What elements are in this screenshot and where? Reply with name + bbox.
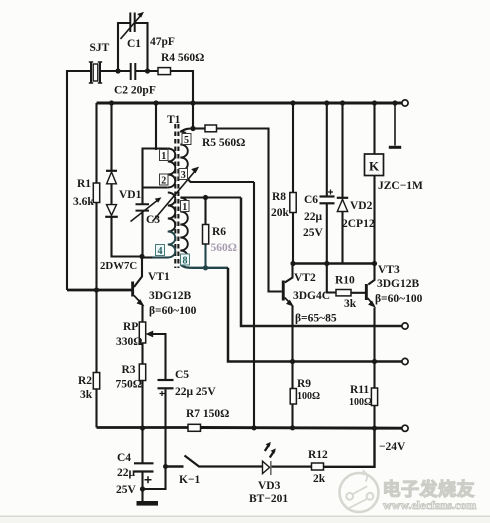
output terminal mid1 [402, 323, 408, 329]
svg-text:R11: R11 [350, 384, 369, 396]
svg-text:β=65~85: β=65~85 [295, 313, 337, 325]
wire T1 pin1 bracket [143, 149, 168, 204]
capacitor C2 [131, 63, 136, 80]
T1 pin box 5 [182, 134, 191, 146]
svg-text:3DG4C: 3DG4C [293, 290, 330, 302]
svg-text:2k: 2k [313, 473, 326, 485]
wire R5 right down to VT2 base [217, 129, 282, 292]
svg-text:www.elecfans.com: www.elecfans.com [383, 498, 476, 512]
wire K coil top [373, 103, 375, 154]
resistor R12 [312, 463, 324, 470]
svg-text:R10: R10 [335, 275, 355, 287]
wire VT3 emitter down to line2 junction [373, 308, 375, 362]
svg-text:SJT: SJT [90, 42, 110, 54]
capacitor C5 electrolytic [158, 380, 174, 396]
svg-text:100Ω: 100Ω [297, 391, 320, 402]
svg-text:β=60~100: β=60~100 [149, 305, 197, 317]
capacitor C4 electrolytic [134, 463, 154, 483]
T1 pin5 lead [180, 129, 193, 133]
svg-text:R9: R9 [297, 378, 311, 390]
wire R10 right to VT3 base [351, 292, 365, 294]
T1 pin3 lead [181, 172, 254, 183]
svg-text:100Ω: 100Ω [349, 397, 372, 408]
svg-text:22μ 25V: 22μ 25V [175, 386, 216, 398]
svg-text:R12: R12 [308, 449, 328, 461]
wire VT2 collector [285, 264, 293, 283]
svg-text:VT1: VT1 [148, 271, 170, 283]
capacitor C3 (trimmer) [136, 204, 150, 210]
capacitor C6 electrolytic [320, 190, 335, 204]
capacitor C1 (trimmer) [121, 13, 144, 40]
wire VD2 top [341, 103, 343, 198]
svg-text:560Ω: 560Ω [211, 242, 237, 254]
wire VD2 bottom [341, 212, 343, 264]
T1 right upper winding [180, 132, 188, 171]
svg-text:2DW7C: 2DW7C [100, 260, 137, 272]
wire VD1 bottom to node [112, 217, 143, 257]
T1 left upper winding [168, 149, 176, 188]
relay contact bar [389, 146, 401, 149]
svg-text:R7 150Ω: R7 150Ω [186, 408, 229, 420]
resistor R4 [158, 68, 171, 75]
wire C4 top [141, 428, 143, 463]
resistor R9 [290, 389, 296, 405]
wire node down to VT1 collector [134, 257, 142, 288]
wire T1 pin2 stub [143, 186, 168, 188]
wire VD1 top [110, 103, 112, 170]
wire R1 bottom to base line [95, 203, 97, 291]
svg-text:C1: C1 [127, 38, 141, 50]
wire R9 bottom to rail [291, 404, 293, 428]
svg-text:C3: C3 [146, 214, 160, 226]
svg-text:47pF: 47pF [150, 36, 175, 48]
wire VD3 to R12 [271, 466, 312, 468]
resistor R11 [371, 388, 377, 406]
resistor R10 [336, 290, 351, 296]
wire pin8 corner down to out2 [228, 268, 402, 362]
svg-text:RP: RP [123, 321, 138, 333]
wire rail drop to T1 pin1 [155, 103, 157, 150]
svg-text:R3: R3 [122, 364, 136, 376]
wire VT1 emitter down to RP [141, 305, 143, 322]
T1 pin box 1b (right lower) [181, 201, 190, 213]
svg-text:R5 560Ω: R5 560Ω [202, 137, 245, 149]
output terminal -24V [402, 425, 408, 431]
T1 pin box 4 (teal) [156, 245, 165, 257]
wire C3 bottom to VD1 node [141, 212, 143, 257]
svg-text:R4 560Ω: R4 560Ω [161, 52, 204, 64]
wire K-1 row left [166, 465, 184, 467]
svg-text:K−1: K−1 [179, 474, 200, 486]
wire VD1 middle [110, 184, 112, 205]
wire R6 top [204, 198, 206, 225]
wire C4 bottom to ground [141, 472, 143, 501]
wire RP wiper to C5 [151, 334, 166, 379]
resistor R2 [93, 373, 99, 390]
crystal SJT [89, 62, 102, 83]
svg-text:3.6k: 3.6k [73, 196, 94, 208]
svg-text:2CP12: 2CP12 [342, 218, 375, 230]
svg-text:R2: R2 [78, 375, 92, 387]
wire R11 bottom to rail [373, 406, 375, 429]
T1 pin8 lead [181, 265, 229, 268]
wire R4 right, down to T1 pin5 node [171, 71, 194, 128]
wire R8 bottom [292, 213, 294, 264]
svg-text:4: 4 [158, 246, 163, 257]
wire R3 to bottom rail [141, 381, 143, 429]
svg-text:VT3: VT3 [378, 264, 400, 276]
wire RP to R3 [141, 343, 143, 364]
wire VT2 emitter down through line1 to line2 [291, 306, 293, 362]
wire crystal left + left vertical to VT1 base [67, 71, 90, 290]
output terminal top [402, 100, 408, 106]
svg-text:BT−201: BT−201 [249, 493, 288, 505]
wire pin3 down to -24V rail [253, 182, 255, 428]
T1 slug arrow [153, 167, 199, 221]
T1 left lower winding [168, 193, 176, 232]
wire rail left corner down to R1 [95, 103, 97, 183]
svg-text:1: 1 [161, 151, 166, 162]
wire pin5 node to R5 [193, 127, 205, 129]
relay K box [365, 154, 384, 176]
wire rail down through K-1 node to C4 lead [143, 428, 166, 489]
wire C1 right lead [135, 23, 148, 71]
svg-text:2: 2 [161, 175, 166, 186]
svg-text:3k: 3k [80, 389, 93, 401]
wire K coil bottom to node [373, 176, 375, 264]
svg-text:20k: 20k [271, 207, 290, 219]
resistor R8 [290, 193, 296, 213]
wire R8 top [292, 103, 294, 193]
svg-text:3k: 3k [344, 298, 357, 310]
bottom rail left of R7 [97, 426, 189, 429]
wire C2 right to R4 [136, 70, 158, 72]
wire R2 bottom to rail corner [95, 389, 97, 428]
wire pin1b down to out1 (line-1) [241, 198, 402, 327]
node line VT2/VT3 collectors [293, 262, 375, 265]
wire K-1 to VD3 [199, 465, 263, 467]
T1 pin box 2 (left) [160, 174, 169, 186]
wire node down to R10 [327, 264, 336, 293]
wire C6 bottom [326, 204, 328, 264]
wire C5 bottom to rail [164, 390, 166, 429]
resistor R1 [93, 183, 99, 203]
PARTS [89, 13, 408, 506]
diode VD1 upper [106, 171, 117, 184]
wire R2 top [95, 290, 97, 373]
wire VT1 base line [67, 289, 132, 292]
svg-text:R6: R6 [212, 226, 226, 238]
watermark logo circle [340, 471, 379, 513]
svg-text:β=60~100: β=60~100 [375, 293, 423, 305]
wire line2 junction to R11 [373, 362, 375, 389]
diode VD2 [337, 198, 348, 212]
transistor VT1 [131, 282, 143, 306]
svg-text:25V: 25V [116, 484, 137, 496]
svg-text:电子发烧友: 电子发烧友 [383, 479, 476, 500]
svg-text:−24V: −24V [379, 441, 406, 453]
switch K-1 blade [185, 456, 200, 467]
svg-text:3DG12B: 3DG12B [377, 278, 420, 290]
svg-text:R8: R8 [272, 191, 286, 203]
svg-text:3DG12B: 3DG12B [149, 290, 192, 302]
T1 pin box 1 (left) [160, 150, 169, 162]
svg-text:C2 20pF: C2 20pF [114, 85, 156, 97]
transistor VT3 [365, 284, 375, 307]
T1 right lower winding [180, 198, 188, 265]
svg-text:K: K [369, 159, 380, 174]
T1 pin box 8 (teal) [181, 254, 190, 266]
svg-text:VD2: VD2 [350, 200, 373, 212]
svg-text:1: 1 [182, 202, 187, 213]
ground bar [137, 501, 159, 506]
diode VD1 lower [105, 205, 118, 217]
svg-text:750Ω: 750Ω [116, 379, 142, 391]
C3 trimmer arrow [131, 198, 161, 222]
T1 pin box 3 [179, 169, 188, 181]
wire VT3 collector [368, 264, 374, 285]
svg-text:C6: C6 [304, 194, 318, 206]
wire VT2 emitter junction to R9 [291, 362, 293, 389]
wire C6 top [326, 103, 328, 196]
svg-text:3: 3 [181, 170, 186, 181]
wire node to T1 pin4 [142, 256, 153, 258]
svg-text:330Ω: 330Ω [116, 336, 142, 348]
T1 pin1b lead [181, 196, 242, 198]
bottom page edge line [0, 516, 490, 518]
svg-text:5: 5 [184, 135, 189, 146]
top rail [97, 102, 402, 105]
svg-text:22μ: 22μ [304, 211, 323, 223]
resistor R3 [139, 364, 145, 381]
svg-text:T1: T1 [167, 114, 181, 126]
svg-text:VT2: VT2 [294, 272, 316, 284]
svg-text:VD3: VD3 [258, 480, 281, 492]
T1 left lower winding teal part [160, 232, 175, 258]
svg-text:C5: C5 [175, 369, 189, 381]
svg-text:22μ: 22μ [117, 467, 136, 479]
resistor R6 [203, 225, 209, 245]
svg-text:8: 8 [183, 255, 188, 266]
potentiometer RP [139, 322, 153, 343]
wire relay contact drop [394, 103, 396, 146]
bottom rail right of R7 [201, 426, 402, 430]
resistor R5 [205, 125, 217, 132]
wire R12 right up to -24V rail [324, 428, 375, 467]
svg-text:VD1: VD1 [119, 189, 142, 201]
svg-text:JZC−1M: JZC−1M [378, 180, 423, 192]
LED VD3 [263, 442, 276, 475]
wire C1 left lead [118, 23, 130, 71]
transistor VT2 [282, 281, 293, 307]
svg-text:25V: 25V [303, 227, 324, 239]
wire crystal right to C2 [100, 70, 130, 72]
svg-text:R1: R1 [77, 178, 91, 190]
svg-text:C4: C4 [117, 452, 131, 464]
T1 core dashed lines [175, 124, 178, 268]
output terminal mid2 [402, 358, 408, 364]
WATERMARK [0, 471, 490, 523]
wire R6 bottom [204, 244, 206, 268]
resistor R7 (in-line) [188, 424, 201, 431]
